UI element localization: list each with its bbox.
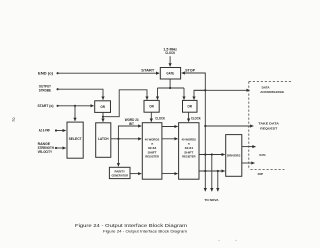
IOP boundary dashed horizontal top bbox=[249, 81, 291, 83]
svg-text:LATCH: LATCH bbox=[98, 137, 109, 141]
node junction dots bbox=[55, 72, 219, 172]
wire to NOVA 3 bbox=[217, 171, 219, 191]
svg-text:DATA: DATA bbox=[262, 85, 271, 89]
svg-text:GENERATOR: GENERATOR bbox=[112, 174, 129, 178]
wire GATE fanout into OR3 top bbox=[183, 88, 185, 100]
svg-text:TAKE DATA: TAKE DATA bbox=[258, 122, 280, 126]
svg-text:Figure 24 - Output Interface B: Figure 24 - Output Interface Block Diagr… bbox=[75, 223, 188, 228]
svg-text:REQUEST: REQUEST bbox=[260, 127, 277, 131]
svg-text:STROBE: STROBE bbox=[39, 89, 52, 93]
svg-text:OR: OR bbox=[149, 105, 154, 109]
wire to NOVA 2 bbox=[211, 155, 213, 192]
wire busy net branch into OR3 top bbox=[194, 90, 205, 99]
wire 1.5 MHz clock into GATE top bbox=[169, 56, 171, 66]
wire to NOVA 1 bbox=[204, 155, 206, 192]
svg-text:CLOCK: CLOCK bbox=[191, 117, 201, 121]
wire END input to GATE START bbox=[58, 72, 160, 74]
faint dust speck left bbox=[218, 240, 219, 241]
wire LATCH output to shift register A bbox=[111, 138, 142, 140]
wire START branch down to SELECT top bbox=[74, 106, 76, 121]
svg-text:IOP: IOP bbox=[258, 172, 263, 176]
wire shift A to shift B top bbox=[162, 126, 178, 128]
svg-text:OR: OR bbox=[187, 105, 192, 109]
wire OR2 output clock into shift register A top bbox=[150, 112, 152, 122]
wire GATE bottom stem bbox=[169, 79, 171, 88]
svg-text:ACKNOWLEDGE: ACKNOWLEDGE bbox=[260, 90, 284, 94]
svg-text:STOP: STOP bbox=[185, 68, 196, 72]
block shift register B box bbox=[179, 123, 199, 180]
wire down to PARITY GENERATOR top bbox=[117, 139, 119, 167]
wire shift A to shift B bottom bbox=[162, 173, 178, 175]
wire PARITY GENERATOR output to shift register A bbox=[130, 173, 141, 175]
wire shift B out to DRIVERS lower bbox=[199, 170, 225, 172]
wire RANGE STRENGTH VELOCITY to SELECT left bbox=[56, 147, 66, 149]
wire GATE fanout into OR2 top bbox=[157, 88, 159, 100]
wire START input to OR1 left bbox=[58, 105, 94, 107]
svg-text:VELOCITY: VELOCITY bbox=[38, 150, 53, 154]
gate OR3 box bbox=[183, 100, 198, 112]
wire WORD 23 BIT into shift register A bbox=[118, 126, 141, 139]
svg-text:BIT: BIT bbox=[129, 122, 134, 126]
IOP boundary dashed horizontal bottom bbox=[251, 169, 285, 171]
IOP interface boundary dashed vertical bbox=[248, 82, 250, 170]
wire DRIVERS output DATA 1 bbox=[242, 146, 256, 148]
wire busy net to DATA ACKNOWLEDGE bbox=[194, 89, 250, 91]
svg-text:TO NOVA: TO NOVA bbox=[204, 198, 219, 202]
wire OR1 output down to LATCH top bbox=[102, 112, 104, 121]
block DRIVERS box bbox=[226, 135, 242, 177]
svg-text:DATA: DATA bbox=[259, 153, 266, 157]
block LATCH box bbox=[96, 123, 111, 158]
svg-text:CLOCK: CLOCK bbox=[155, 117, 165, 121]
svg-text:70: 70 bbox=[11, 117, 16, 122]
gate OR2 box bbox=[144, 100, 159, 112]
wire shift A to shift B middle bbox=[162, 138, 178, 140]
wire OR3 output clock into shift register B top bbox=[188, 112, 190, 122]
svg-text:SELECT: SELECT bbox=[69, 137, 82, 141]
svg-text:DRIVERS: DRIVERS bbox=[227, 154, 241, 158]
wire OUTPUT STROBE to OR1 top bbox=[58, 89, 104, 99]
block PARITY GENERATOR box bbox=[109, 167, 130, 178]
svg-text:CLOCK: CLOCK bbox=[165, 51, 176, 55]
svg-text:OR: OR bbox=[100, 105, 105, 109]
svg-text:Figure 24 - Output Interface B: Figure 24 - Output Interface Block Diagr… bbox=[103, 229, 187, 233]
wire busy net vertical riser bbox=[204, 90, 206, 154]
wire GATE fanout horizontal bbox=[158, 87, 185, 89]
faint dust speck right bbox=[235, 240, 236, 241]
wire OR1 branch up and over to OR2 top bbox=[103, 90, 147, 117]
wire STOP into GATE right bbox=[182, 73, 206, 90]
gate GATE box bbox=[160, 68, 180, 80]
svg-text:GATE: GATE bbox=[166, 72, 174, 76]
svg-text:AZ & PRF: AZ & PRF bbox=[39, 129, 50, 133]
block shift register A box bbox=[142, 123, 162, 180]
svg-text:REGISTER: REGISTER bbox=[182, 155, 196, 159]
wire AZ & PRF to SELECT left bbox=[56, 130, 66, 132]
svg-text:START (o): START (o) bbox=[38, 104, 54, 108]
svg-text:START: START bbox=[141, 68, 154, 72]
wire TAKE DATA REQUEST bbox=[205, 125, 253, 127]
wire shift B serial out to DRIVERS upper bbox=[199, 154, 225, 156]
svg-text:END (o): END (o) bbox=[38, 72, 53, 76]
gate OR1 box bbox=[95, 101, 111, 113]
block SELECT box bbox=[67, 122, 83, 158]
wire DRIVERS output DATA 2 bbox=[242, 162, 255, 164]
svg-text:REGISTER: REGISTER bbox=[145, 155, 159, 159]
